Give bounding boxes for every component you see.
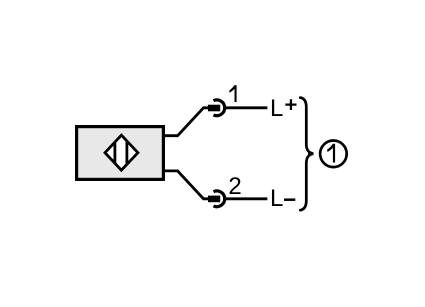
connector socket 2 (arc) bbox=[213, 191, 224, 207]
connector socket 1 (arc) bbox=[213, 100, 224, 116]
digit 1 inside callout circle bbox=[327, 144, 335, 163]
wire pin 2 to L- bbox=[225, 197, 268, 200]
svg-text:L: L bbox=[270, 95, 283, 122]
sensor body (box) bbox=[77, 127, 164, 180]
minus sign of L- bbox=[284, 198, 295, 201]
connector pin 1 (plug) bbox=[208, 105, 220, 112]
svg-text:L: L bbox=[270, 185, 283, 212]
curly brace bbox=[300, 98, 313, 211]
curly brace cusp point bbox=[308, 151, 314, 156]
wire pin 1 to L+ bbox=[225, 106, 268, 109]
plus sign of L+ bbox=[285, 99, 296, 110]
sensor symbol diamond bbox=[105, 135, 138, 170]
pin number 1 bbox=[229, 85, 236, 102]
connector pin 2 (plug) bbox=[208, 196, 220, 203]
svg-text:2: 2 bbox=[228, 173, 241, 200]
wire from sensor to pin 2 bbox=[165, 171, 209, 199]
wire from sensor to pin 1 bbox=[165, 108, 209, 136]
circled 1 callout bbox=[320, 141, 347, 168]
